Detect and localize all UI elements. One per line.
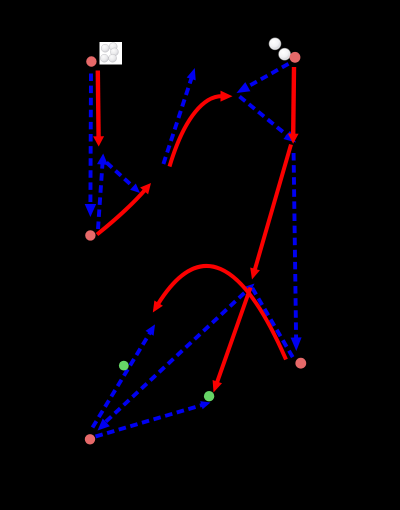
pass arrow R5 (long pass to mid junction) bbox=[255, 145, 291, 271]
run arrow B1 (P1 down to above P2) bbox=[88, 74, 92, 206]
pass arrow R1 (P1 straight down) bbox=[96, 71, 101, 138]
run arrow B6 (junction down-right) bbox=[240, 97, 288, 136]
pass arrow R3 (curve to top junction) bbox=[170, 96, 223, 166]
pass arrow R4 (P3 straight down) bbox=[291, 67, 296, 135]
run arrow B5 (P3 down-left) bbox=[247, 64, 289, 87]
run arrow B3 (cut down-right) bbox=[107, 163, 134, 188]
player P1 bbox=[86, 56, 96, 66]
marker G2 (green) bbox=[204, 391, 214, 401]
ball 1 near top-right player bbox=[269, 38, 280, 49]
ball box (pile of 5 balls) top-left bbox=[100, 42, 123, 65]
player P4 bbox=[295, 358, 306, 369]
run line B8 (junction to P4, no arrowhead) bbox=[252, 288, 293, 359]
pass arrow R7 (junction down to G2) bbox=[217, 288, 251, 383]
player P5 bbox=[85, 434, 95, 444]
run arrow B7 (down to P4) bbox=[294, 153, 297, 339]
ball 2 near top-right player bbox=[279, 49, 290, 60]
run arrow B4 (junction up to mid-top) bbox=[163, 78, 191, 164]
player P2 bbox=[85, 230, 95, 240]
marker G1 (green) bbox=[119, 361, 129, 371]
run arrow B10 (P5 to mid junction, double-headed) bbox=[106, 291, 247, 422]
run arrow B11 (P5 to G2) bbox=[96, 405, 203, 437]
run arrow B9 (P5 up past G1) bbox=[93, 332, 151, 427]
pass arrow R6 (arc from P4 up-left) bbox=[158, 266, 286, 360]
player P3 bbox=[290, 52, 301, 63]
run arrow B2 (P2 up) bbox=[98, 163, 103, 229]
pass arrow R2 (P2 up-right) bbox=[97, 190, 145, 235]
